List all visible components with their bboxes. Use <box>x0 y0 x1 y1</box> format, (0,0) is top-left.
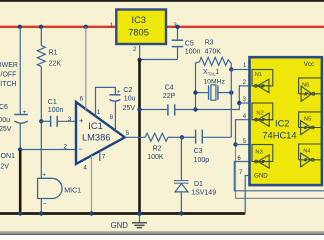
C4 value label <box>163 84 176 100</box>
svg-text:GND: GND <box>111 221 129 230</box>
inverter N6 <box>299 78 323 102</box>
svg-text:1: 1 <box>97 109 101 116</box>
svg-text:C1: C1 <box>48 99 57 106</box>
wire pin5 stub <box>236 144 251 146</box>
svg-text:1: 1 <box>215 69 219 76</box>
wire C4 ground-side row <box>140 109 168 111</box>
wire pin3 stub <box>239 102 250 104</box>
svg-text:IC1: IC1 <box>88 121 102 131</box>
svg-text:5: 5 <box>126 130 130 137</box>
pin 7 label IC2 <box>239 170 243 176</box>
wire C6 bottom lead <box>19 124 21 150</box>
pin 2 label IC2 <box>243 80 247 86</box>
R2 value label <box>147 145 164 161</box>
bottom frame line <box>0 231 324 235</box>
pin 3 label IC3 <box>173 22 177 29</box>
capacitor C4 <box>168 104 196 115</box>
svg-text:1: 1 <box>243 63 247 69</box>
node pin4 / pin5 junction <box>233 142 237 146</box>
node R2 / C3 / D1 junction <box>180 135 184 139</box>
resistor R3 <box>196 57 232 69</box>
svg-text:2: 2 <box>243 80 247 86</box>
wire MIC1 bottom lead <box>40 199 42 214</box>
svg-text:100n: 100n <box>185 49 201 56</box>
pin 5 label IC2 <box>243 139 247 145</box>
svg-text:1SV149: 1SV149 <box>191 190 216 197</box>
wire pin7 stub to ground rail <box>245 176 250 214</box>
wire thick CON1 ground drop <box>19 150 22 214</box>
pin 5 label LM386 <box>126 130 130 137</box>
pin 2 label LM386 <box>64 144 68 151</box>
resistor R1 <box>37 27 45 67</box>
op-amp IC1 LM386 <box>76 102 125 164</box>
POWER ON/OFF SWITCH label <box>0 62 18 88</box>
svg-text:ON/OFF: ON/OFF <box>0 72 16 79</box>
capacitor C5 <box>172 27 184 60</box>
node crystal-left bottom junction <box>193 107 197 111</box>
svg-text:+: + <box>42 171 46 178</box>
inverter N5 <box>299 112 323 135</box>
svg-text:IC3: IC3 <box>132 15 146 25</box>
svg-text:R1: R1 <box>49 50 58 57</box>
inverter N3 <box>252 145 273 169</box>
inverter N1 <box>252 70 273 93</box>
node crystal left <box>193 90 197 94</box>
wire LM386 pin7 stub <box>99 151 101 161</box>
wire C5 bottom to ground bus <box>140 59 178 61</box>
inverter N2 <box>252 103 273 126</box>
capacitor C3 <box>182 130 231 144</box>
node pin2 / pin3 junction <box>237 101 241 105</box>
svg-text:74HC14: 74HC14 <box>262 130 296 140</box>
varactor diode D1 <box>174 137 189 213</box>
svg-text:1: 1 <box>110 22 114 29</box>
node red rail / LM386 pin6 branch <box>84 25 88 29</box>
wire pin4 stub and drop <box>236 120 324 199</box>
svg-text:2: 2 <box>64 144 68 151</box>
wire thick ground rail bottom <box>0 212 245 215</box>
node R3 / pin1 junction <box>229 67 233 71</box>
wire pin6 stub and run to edge <box>234 162 324 191</box>
capacitor C2 electrolytic <box>109 89 120 101</box>
pin 6 label IC2 <box>237 156 241 162</box>
svg-text:Vcc: Vcc <box>304 61 314 68</box>
C5 value label <box>185 41 201 56</box>
IC3 7805 regulator <box>116 10 166 45</box>
pin 3 label LM386 <box>68 116 72 123</box>
svg-text:LM386: LM386 <box>82 133 110 143</box>
wire R1 bottom to C1 node <box>40 67 42 122</box>
wire LM386 pin1 stub <box>96 87 116 116</box>
svg-text:+: + <box>79 116 84 125</box>
wire C6 top lead <box>19 27 21 115</box>
svg-text:25V: 25V <box>0 126 12 133</box>
pin 4 label LM386 <box>83 164 87 171</box>
svg-text:N6: N6 <box>302 83 309 89</box>
svg-text:N3: N3 <box>255 149 262 155</box>
IC2 74HC14 box <box>250 57 322 185</box>
wire net-X row to pin3 riser <box>196 103 240 110</box>
svg-text:CON1: CON1 <box>0 153 15 160</box>
wire node-A vertical <box>195 63 197 110</box>
svg-text:2: 2 <box>133 46 137 53</box>
svg-text:SWITCH: SWITCH <box>0 81 17 88</box>
MIC1 label <box>64 187 81 194</box>
pin 3 label IC2 <box>243 97 247 103</box>
svg-text:10u: 10u <box>124 95 136 102</box>
svg-text:C2: C2 <box>123 87 132 94</box>
svg-text:3: 3 <box>243 97 247 103</box>
node ground rail / ground bus <box>137 211 142 216</box>
wire C2 bottom to pin8 <box>114 102 116 131</box>
svg-text:7: 7 <box>102 154 106 161</box>
svg-text:IC2: IC2 <box>275 118 289 128</box>
wire LM386 pin6 supply <box>85 27 87 110</box>
svg-text:R3: R3 <box>205 39 214 46</box>
svg-text:6: 6 <box>80 96 84 103</box>
svg-text:22P: 22P <box>163 93 176 100</box>
XTAL1 label <box>203 69 219 76</box>
svg-text:D1: D1 <box>194 181 203 188</box>
R3 value label <box>205 39 222 55</box>
ground symbol <box>132 215 147 228</box>
svg-text:POWER: POWER <box>0 62 18 69</box>
node ground rail / MIC1 <box>39 211 43 215</box>
microphone MIC1 <box>38 171 62 207</box>
node red rail / C6 branch <box>18 25 22 29</box>
wire net-Y vertical to C3 <box>230 70 232 138</box>
CON1 12V label <box>0 153 15 171</box>
pin 4 label IC2 <box>243 114 247 120</box>
node ground rail / CON1 drop <box>18 211 22 215</box>
svg-text:R2: R2 <box>153 145 162 152</box>
D1 value label <box>191 181 216 197</box>
svg-text:C6: C6 <box>0 104 8 111</box>
svg-text:7: 7 <box>239 170 243 176</box>
pin 8 label LM386 <box>110 114 114 121</box>
10MHz label <box>203 79 225 86</box>
node red rail / C5 branch <box>175 25 179 29</box>
top frame line <box>0 0 324 2</box>
node R1 / C1 / MIC1 junction <box>39 119 43 123</box>
svg-text:100p: 100p <box>194 157 210 164</box>
C6 value label <box>0 104 12 133</box>
svg-text:10MHz: 10MHz <box>203 79 225 86</box>
inverter N4 <box>299 144 323 167</box>
node ground bus / C4 <box>137 107 141 111</box>
node ground rail / D1 <box>179 211 183 215</box>
svg-text:3: 3 <box>68 116 72 123</box>
svg-text:4: 4 <box>83 164 87 171</box>
pin 7 label LM386 <box>102 154 106 161</box>
C1 value label <box>48 99 64 114</box>
svg-text:−: − <box>43 200 47 207</box>
pin 2 label IC3 <box>133 46 137 53</box>
svg-text:8: 8 <box>110 114 114 121</box>
pin 1 label LM386 <box>97 109 101 116</box>
wire +5V red rail right segment <box>166 26 324 28</box>
svg-text:C4: C4 <box>165 84 174 91</box>
C2 value label <box>123 87 136 112</box>
svg-text:12V: 12V <box>0 164 9 171</box>
capacitor C6 electrolytic <box>14 109 27 123</box>
svg-text:100n: 100n <box>48 107 64 114</box>
svg-text:MIC1: MIC1 <box>64 187 81 194</box>
GND label <box>111 221 129 230</box>
node IC3 pin2 / C5 junction <box>137 58 141 62</box>
svg-text:470K: 470K <box>205 49 222 56</box>
svg-text:100K: 100K <box>147 154 164 161</box>
C3 value label <box>194 148 210 164</box>
node ground rail / LM386 pin4 <box>89 211 93 215</box>
svg-text:N5: N5 <box>304 117 311 123</box>
svg-text:7805: 7805 <box>128 28 149 38</box>
wire LM386 output to R2 <box>125 136 145 138</box>
node red rail / R1 branch <box>39 25 43 29</box>
crystal XTAL1 <box>196 85 232 100</box>
pin 1 label IC2 <box>243 63 247 69</box>
resistor R2 <box>145 133 182 141</box>
svg-text:N1: N1 <box>255 72 262 78</box>
R1 value label <box>49 50 62 68</box>
svg-text:C5: C5 <box>185 41 194 48</box>
capacitor C1 <box>41 116 76 127</box>
wire +12V red rail left segment <box>0 26 116 28</box>
svg-text:100u: 100u <box>0 117 10 124</box>
pin 6 label LM386 <box>80 96 84 103</box>
wire MIC1 top lead <box>40 121 42 178</box>
svg-text:−: − <box>78 145 83 154</box>
node crystal right <box>229 90 233 94</box>
svg-text:GND: GND <box>254 172 268 179</box>
svg-text:C3: C3 <box>194 148 203 155</box>
svg-text:+: + <box>23 109 27 116</box>
svg-text:N2: N2 <box>256 110 263 116</box>
node C6 / pin2 / ground junction <box>18 147 22 151</box>
wire LM386 pin4 to ground rail <box>91 155 93 213</box>
svg-text:25V: 25V <box>123 105 136 112</box>
wire LM386 pin2 to ground node <box>20 149 76 151</box>
svg-text:22K: 22K <box>49 61 62 68</box>
pin 1 label IC3 <box>110 22 114 29</box>
wire pin1 stub <box>231 69 250 71</box>
wire thick ground bus vertical <box>138 60 141 214</box>
wire pin2 stub and drop <box>239 86 250 103</box>
wire IC3 pin2 down <box>139 44 141 60</box>
svg-text:N4: N4 <box>303 149 311 155</box>
